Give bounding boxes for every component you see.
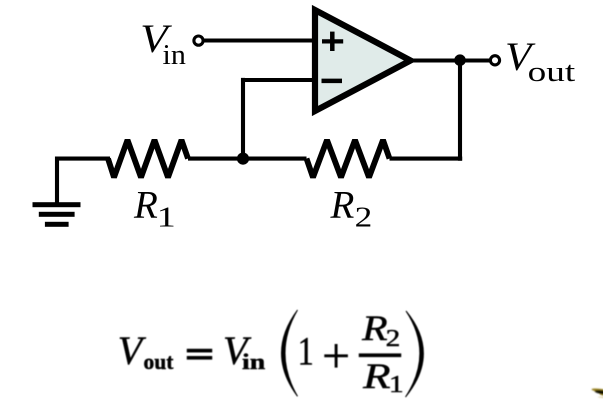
op-amp minus input marking (322, 79, 343, 84)
wire R1 to node (188, 157, 307, 161)
label R1 (133, 184, 176, 234)
svg-text:R: R (133, 184, 158, 227)
op-amp plus input marking (322, 32, 343, 51)
svg-text:1: 1 (157, 202, 176, 234)
svg-text:2: 2 (386, 326, 401, 352)
wire inverting input vertical (241, 78, 245, 160)
svg-text:out: out (144, 349, 175, 374)
svg-text:R: R (362, 356, 391, 396)
formula equals (187, 349, 212, 359)
pen tip corner object (591, 388, 603, 399)
wire ground riser (57, 159, 110, 204)
svg-text:out: out (528, 57, 576, 88)
svg-text:in: in (242, 349, 265, 374)
svg-text:1: 1 (389, 372, 404, 398)
svg-text:R: R (330, 183, 355, 226)
terminal Vout (490, 56, 499, 65)
label Vin (140, 16, 186, 71)
wire output (411, 58, 491, 62)
wire feedback vertical (458, 58, 462, 160)
resistor R2 (307, 140, 390, 177)
terminal Vin (194, 36, 203, 45)
op-amp U1 body (315, 10, 411, 111)
formula fraction bar (359, 354, 401, 357)
wire R2 to feedback (390, 157, 463, 161)
svg-text:2: 2 (355, 202, 373, 234)
svg-text:1: 1 (298, 328, 314, 373)
svg-text:in: in (163, 40, 186, 71)
resistor R1 (108, 140, 188, 177)
ground (33, 202, 81, 227)
svg-text:R: R (361, 308, 388, 348)
formula Vout = Vin (1 + R2/R1) (118, 308, 424, 398)
formula left paren (282, 310, 298, 396)
label R2 (330, 183, 373, 233)
formula right paren (406, 311, 424, 397)
formula plus (324, 344, 348, 368)
junction output node (454, 54, 466, 66)
wire inverting input horizontal (243, 78, 317, 82)
junction feedback node (237, 153, 249, 165)
wire Vin to noninverting input (203, 38, 317, 42)
label Vout (505, 34, 576, 88)
